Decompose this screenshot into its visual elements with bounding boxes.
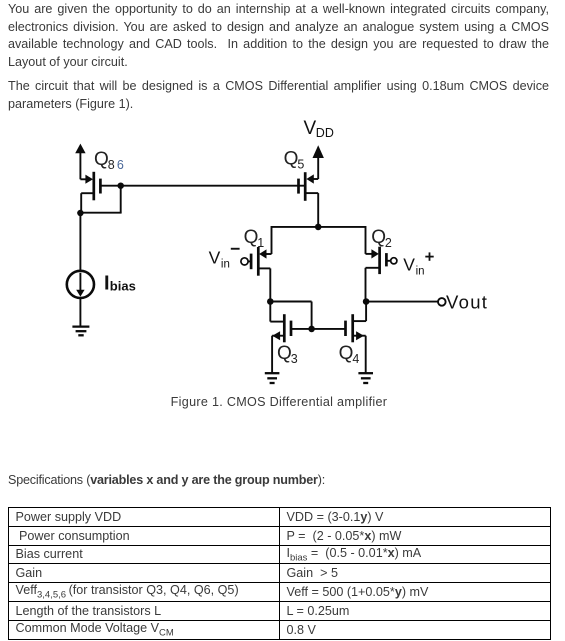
svg-text:Vout: Vout (446, 292, 488, 313)
label Q5 (284, 149, 305, 172)
svg-text:V: V (209, 247, 221, 267)
label Vin- (209, 247, 240, 270)
wire: tail node rail (272, 226, 366, 228)
power VDD arrow above Q5 (313, 145, 324, 179)
svg-text:Q: Q (244, 227, 259, 248)
node: tail junction (315, 224, 322, 231)
svg-text:bias: bias (110, 279, 136, 294)
node: output node (363, 298, 370, 305)
wire: Q3 diode connection to mirror gates (270, 302, 311, 329)
transistor Q8 (diode-connected PMOS) (80, 172, 100, 214)
svg-text:8: 8 (108, 158, 115, 172)
label Q8 6 (94, 149, 124, 172)
wire: output node to Vout terminal (366, 301, 438, 303)
svg-text:6: 6 (117, 158, 124, 172)
power VDD arrow above Q8 (75, 144, 85, 180)
node: Q8 gate junction (117, 182, 124, 189)
svg-text:DD: DD (316, 126, 334, 140)
svg-text:in: in (416, 266, 425, 278)
svg-text:V: V (304, 118, 317, 139)
label Q4 (339, 343, 360, 366)
label Q3 (277, 343, 298, 366)
svg-text:5: 5 (297, 158, 304, 172)
svg-text:1: 1 (257, 236, 264, 250)
label Q2 (371, 227, 392, 250)
ground (under Ibias) (72, 327, 89, 336)
svg-text:Q: Q (339, 343, 354, 364)
ground (under Q3) (265, 373, 280, 383)
svg-text:in: in (221, 259, 230, 271)
svg-text:Q: Q (371, 227, 386, 248)
transistor Q2 (PMOS input right) (366, 226, 397, 302)
transistor Q3 (NMOS mirror, diode side) (270, 302, 291, 373)
svg-text:Q: Q (94, 149, 109, 170)
label Ibias (104, 272, 136, 294)
label Vin+ (403, 252, 433, 277)
label Q1 (244, 227, 265, 250)
svg-text:Q: Q (284, 149, 299, 170)
ground (under Q4) (358, 373, 373, 383)
svg-text:3: 3 (291, 352, 298, 366)
label Vout (446, 292, 488, 313)
node: Q8 drain / bias node (77, 210, 84, 217)
label VDD (304, 118, 334, 140)
output terminal circle (438, 298, 446, 306)
wire: bias node to current source (79, 213, 81, 271)
wire: Q8 gate-drain diode connection (80, 186, 122, 213)
svg-text:Q: Q (277, 343, 292, 364)
svg-text:4: 4 (352, 352, 359, 366)
transistor Q1 (PMOS input left) (241, 226, 272, 302)
node: Q1/Q3 drain node (267, 298, 274, 305)
svg-text:I: I (104, 272, 110, 294)
transistor Q5 (PMOS current source) (299, 172, 319, 228)
svg-text:2: 2 (385, 236, 392, 250)
current source Ibias (67, 271, 94, 298)
wire: current source to ground (79, 298, 81, 326)
transistor Q4 (NMOS mirror, output side) (346, 302, 367, 373)
node: mirror gate junction (308, 326, 315, 333)
wire: mirror gate rail Q3-Q4 (291, 328, 346, 330)
svg-text:V: V (403, 254, 415, 274)
wire: Q8 gate to Q5 gate (100, 185, 304, 187)
